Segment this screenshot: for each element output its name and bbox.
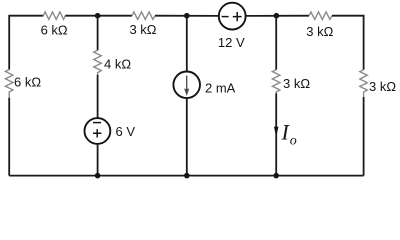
wire top between 12V and node <box>246 15 309 17</box>
current source 2mA <box>173 72 200 99</box>
wire top node down to 2mA source <box>186 16 188 72</box>
svg-text:6 kΩ: 6 kΩ <box>41 22 68 37</box>
resistor R 3k vertical Io branch <box>272 70 280 94</box>
wire top-left segment <box>9 16 43 70</box>
svg-text:3 kΩ: 3 kΩ <box>129 22 156 37</box>
resistor R 3k top horizontal <box>132 12 155 20</box>
wire left bottom <box>8 98 10 176</box>
svg-text:6 kΩ: 6 kΩ <box>14 75 41 90</box>
minus sign of 12V <box>222 16 229 18</box>
resistor R 4k vertical <box>94 50 102 75</box>
wire right bottom <box>363 97 365 176</box>
current arrow Io <box>274 127 279 137</box>
svg-text:4 kΩ: 4 kΩ <box>104 57 131 72</box>
node dot bottom at Io branch <box>273 173 279 179</box>
wire top-right corner <box>332 16 364 70</box>
node dot bottom at 6V branch <box>95 173 101 179</box>
wire top between 6k and 3k <box>65 15 132 17</box>
svg-text:3 kΩ: 3 kΩ <box>369 79 396 94</box>
plus sign of 12V <box>233 12 242 21</box>
svg-text:3 kΩ: 3 kΩ <box>306 24 333 39</box>
node dot top at 4k branch <box>95 13 101 19</box>
resistor R 3k right vertical <box>360 70 368 97</box>
svg-text:6 V: 6 V <box>116 124 136 139</box>
wire 3k down to bottom with Io arrow <box>275 93 277 175</box>
plus sign of 6V <box>93 129 101 137</box>
minus sign of 6V <box>93 122 101 124</box>
resistor R 6k left vertical <box>5 70 12 98</box>
arrow of 2mA source <box>186 76 188 91</box>
svg-text:o: o <box>290 134 297 149</box>
wire 4k to 6V source <box>97 75 99 119</box>
wire top node down to 3k <box>275 16 277 70</box>
svg-text:12 V: 12 V <box>218 35 245 50</box>
svg-text:3 kΩ: 3 kΩ <box>283 76 310 91</box>
wire top between 3k and 12V source <box>155 15 219 17</box>
wire from top node down to 4k <box>97 16 99 51</box>
voltage source 6V <box>85 118 111 144</box>
wire 6V to bottom <box>97 144 99 176</box>
node dot bottom at 2mA branch <box>184 173 190 179</box>
bottom wire <box>9 175 363 177</box>
node dot top at Io branch <box>274 13 280 19</box>
svg-text:2 mA: 2 mA <box>205 81 236 96</box>
wire 2mA to bottom <box>186 98 188 176</box>
voltage source 12V <box>219 3 246 30</box>
resistor R 3k top right horizontal <box>309 12 332 20</box>
node dot top at 2mA branch <box>184 13 190 19</box>
resistor R 6k top horizontal <box>43 12 65 20</box>
